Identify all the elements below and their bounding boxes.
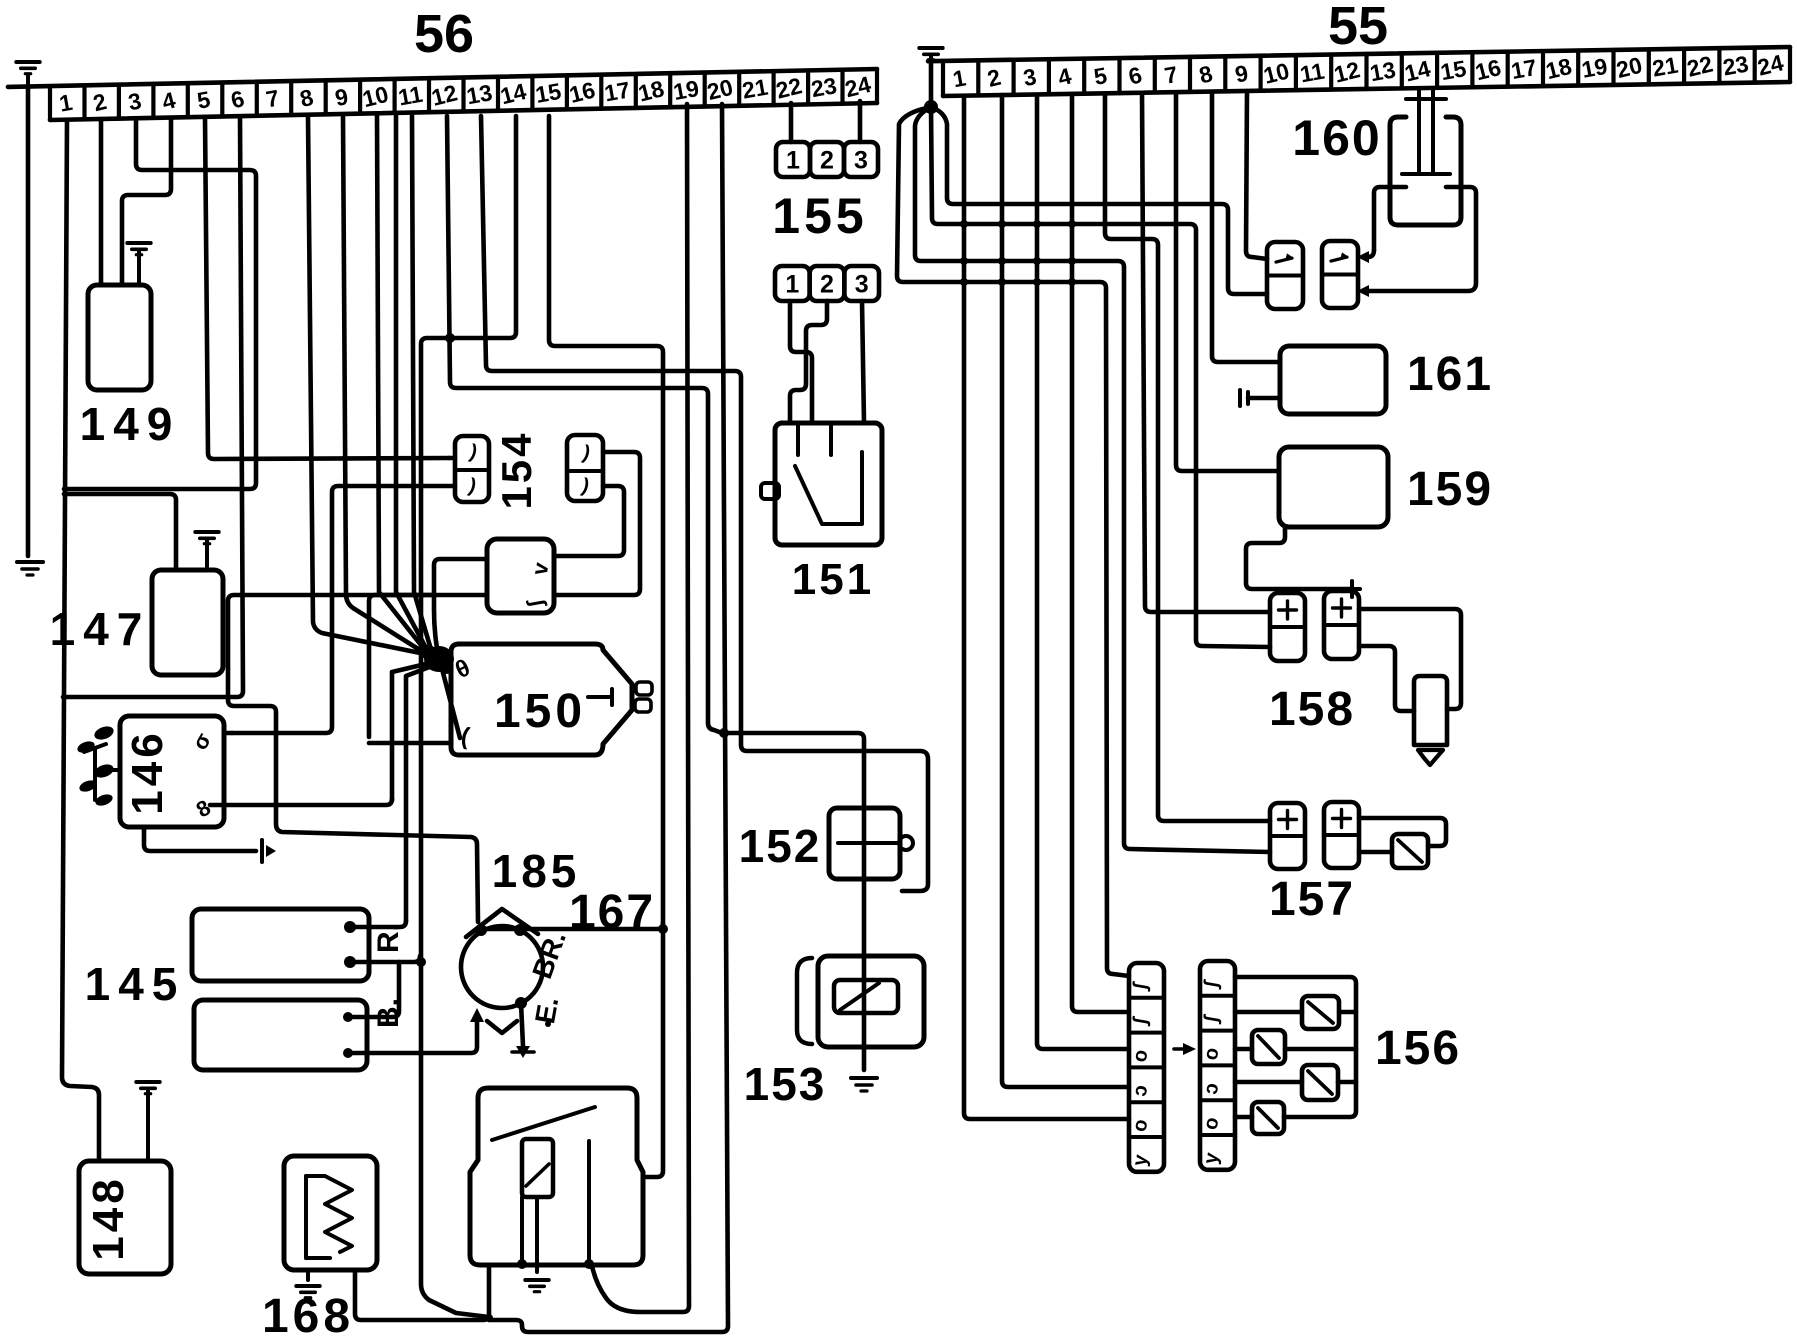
svg-text:160: 160 xyxy=(1292,110,1381,166)
svg-text:152: 152 xyxy=(739,820,822,872)
svg-text:167: 167 xyxy=(569,886,655,939)
svg-text:158: 158 xyxy=(1269,683,1355,736)
svg-text:2: 2 xyxy=(820,147,834,175)
svg-text:159: 159 xyxy=(1407,463,1493,516)
svg-text:B.: B. xyxy=(372,998,405,1028)
svg-text:55: 55 xyxy=(1328,0,1388,56)
svg-text:155: 155 xyxy=(772,188,867,244)
svg-text:R.: R. xyxy=(372,923,405,953)
svg-text:1: 1 xyxy=(786,147,800,175)
svg-text:156: 156 xyxy=(1375,1022,1461,1075)
svg-text:17: 17 xyxy=(1509,54,1539,84)
svg-text:185: 185 xyxy=(492,845,581,897)
svg-text:11: 11 xyxy=(1298,58,1327,88)
svg-text:3: 3 xyxy=(854,147,868,175)
svg-text:1: 1 xyxy=(785,271,799,299)
svg-text:13: 13 xyxy=(464,79,494,109)
svg-text:3: 3 xyxy=(855,271,869,299)
svg-text:15: 15 xyxy=(533,78,563,108)
svg-text:13: 13 xyxy=(1368,56,1398,86)
svg-text:157: 157 xyxy=(1269,873,1355,926)
svg-text:154: 154 xyxy=(493,430,540,509)
svg-text:17: 17 xyxy=(602,76,632,106)
svg-text:153: 153 xyxy=(744,1058,827,1110)
svg-text:149: 149 xyxy=(80,398,181,450)
svg-text:146: 146 xyxy=(123,729,172,814)
svg-text:23: 23 xyxy=(1721,50,1751,80)
svg-text:19: 19 xyxy=(1580,53,1610,83)
svg-text:150: 150 xyxy=(494,685,586,738)
svg-text:15: 15 xyxy=(1438,55,1468,85)
svg-text:2: 2 xyxy=(820,271,834,299)
svg-text:148: 148 xyxy=(84,1175,133,1260)
svg-text:147: 147 xyxy=(50,603,151,655)
svg-text:145: 145 xyxy=(85,958,186,1010)
svg-text:19: 19 xyxy=(671,75,701,105)
svg-text:21: 21 xyxy=(1650,52,1680,82)
svg-text:21: 21 xyxy=(740,74,770,104)
svg-text:151: 151 xyxy=(792,555,874,604)
svg-text:11: 11 xyxy=(396,81,425,111)
svg-text:56: 56 xyxy=(414,4,474,64)
svg-text:161: 161 xyxy=(1407,348,1493,401)
svg-text:23: 23 xyxy=(809,72,839,102)
